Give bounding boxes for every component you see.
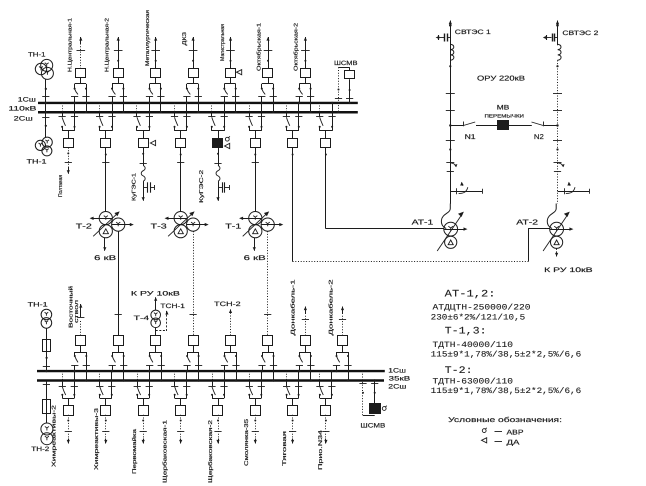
svg-text:ШСМВ: ШСМВ xyxy=(360,422,385,429)
symbol АВР at ШСМВ 35kV xyxy=(382,407,386,411)
svg-text:Донкабель-2: Донкабель-2 xyxy=(328,280,334,336)
110kV busbar section 1Сш (bus 1) xyxy=(38,102,358,104)
svg-text:СВТЭС 1: СВТЭС 1 xyxy=(455,29,492,36)
svg-text:Полтавая: Полтавая xyxy=(58,175,64,197)
110kV transformer bay Т-3 xyxy=(174,103,176,112)
svg-text:АВР: АВР xyxy=(507,430,524,437)
breaker КуГЭС-1 xyxy=(139,139,149,148)
35kV bus-tie breaker ШСМВ (closed) xyxy=(362,371,364,415)
6 кВ arrow of Т-2 xyxy=(104,238,106,251)
legend symbol АВР xyxy=(482,429,486,433)
ТСН-1 dashed tap wire xyxy=(156,330,167,332)
svg-text:N1: N1 xyxy=(465,134,476,141)
autotransformer АТ-1 xyxy=(441,204,450,229)
110kV transformer bay Т-2 xyxy=(99,103,101,112)
transformer Т-2 (three-winding) xyxy=(99,212,112,225)
35kV feeder bay Прио.N34 xyxy=(319,371,321,380)
voltage transformer ТН-1 on 110kV bus 2 xyxy=(45,112,47,137)
35kV voltage transformer ТН-2 xyxy=(46,381,48,400)
svg-text:Н.Центральная-1: Н.Центральная-1 xyxy=(67,18,73,72)
svg-text:230±6*2%/121/10,5: 230±6*2%/121/10,5 xyxy=(431,313,526,322)
35kV winding wire of Т-2 xyxy=(118,231,120,335)
svg-text:ТДТН-40000/110: ТДТН-40000/110 xyxy=(433,341,514,350)
110kV bay to АТ-1 (wire) xyxy=(319,103,321,112)
svg-text:АТДЦТН-250000/220: АТДЦТН-250000/220 xyxy=(433,303,531,312)
110kV busbar 2Сш (bus 2) xyxy=(38,111,358,113)
reactor and coupling capacitor КуГЭС-1 xyxy=(143,148,145,166)
svg-text:Т-1,3:: Т-1,3: xyxy=(445,327,487,338)
svg-text:Металлургическая: Металлургическая xyxy=(145,10,151,66)
35kV feeder bay Смолянка-35 xyxy=(249,371,251,380)
reactor coil СВТЭС 2 xyxy=(558,44,562,60)
symbol ДА at КуГЭС-1 xyxy=(150,140,155,145)
svg-text:ТН-1: ТН-1 xyxy=(28,51,46,58)
svg-text:К РУ 10кВ: К РУ 10кВ xyxy=(131,291,180,298)
line trap / coupling capacitor СВТЭС 2 xyxy=(543,36,547,39)
svg-text:ТН-2: ТН-2 xyxy=(31,446,50,453)
35kV transformer incomer bay (breaker) xyxy=(263,336,273,346)
svg-text:ТН-1: ТН-1 xyxy=(27,159,48,166)
autotransformer АТ-2 xyxy=(547,204,556,229)
svg-text:Т-2: Т-2 xyxy=(76,221,92,230)
35kV feeder bay Щербаковская-2 xyxy=(212,371,214,380)
svg-text:ТДТН-63000/110: ТДТН-63000/110 xyxy=(433,377,514,386)
110kV feeder bay Магистральная xyxy=(230,37,232,44)
svg-text:Прио.N34: Прио.N34 xyxy=(318,430,324,470)
35kV winding wire of Т-3 xyxy=(193,231,195,335)
svg-text:АТ-2: АТ-2 xyxy=(516,217,538,226)
breaker МВ перемычки (closed) xyxy=(498,121,509,130)
35kV bay Восточный ствол xyxy=(76,336,86,346)
legend symbol ДА xyxy=(482,438,487,443)
svg-text:1Сш: 1Сш xyxy=(18,96,36,103)
svg-text:Химреактивы-2: Химреактивы-2 xyxy=(51,405,57,467)
35kV busbar 1Сш (bus 1) xyxy=(37,370,385,372)
wire link to АТ-1 xyxy=(326,228,444,230)
reactor coil СВТЭС 1 xyxy=(450,44,454,60)
svg-text:Октябрьская-2: Октябрьская-2 xyxy=(293,23,299,71)
svg-text:Т-1: Т-1 xyxy=(225,221,241,230)
svg-text:ПЕРЕМЫЧКИ: ПЕРЕМЫЧКИ xyxy=(485,114,525,120)
breaker КуГЭС-2 xyxy=(213,139,223,148)
svg-text:К РУ 10кВ: К РУ 10кВ xyxy=(544,267,593,274)
svg-text:115±9*1,78%/38,5±2*2,5%/6,6: 115±9*1,78%/38,5±2*2,5%/6,6 xyxy=(431,351,582,360)
35kV feeder bay Химреактивы-2 xyxy=(62,371,64,380)
35kV busbar 2Сш (bus 2) xyxy=(37,379,384,381)
svg-text:Магистральная: Магистральная xyxy=(220,24,226,61)
110kV bus-tie breaker ШСМВ xyxy=(339,67,350,69)
svg-text:Щербаковская-2: Щербаковская-2 xyxy=(208,420,214,483)
symbol ДА at КуГЭС-2 xyxy=(225,143,230,148)
svg-text:КуГЭС-1: КуГЭС-1 xyxy=(131,173,137,201)
transformer Т-1 (three-winding) xyxy=(249,212,262,225)
110kV feeder bay Полтавая xyxy=(62,103,64,112)
reactor and coupling capacitor КуГЭС-2 xyxy=(218,148,220,166)
35kV feeder bay Первомайка xyxy=(137,371,139,380)
svg-text:Смолянка-35: Смолянка-35 xyxy=(244,419,250,466)
svg-text:ТН-1: ТН-1 xyxy=(28,302,49,309)
disconnector N1 xyxy=(463,122,465,127)
110kV feeder bay Октябрьская-2 xyxy=(305,37,307,44)
110kV transformer bay Т-1 xyxy=(249,103,251,112)
35kV feeder bay Щербаковская-1 xyxy=(174,371,176,380)
35kV feeder bay Химреактивы-3 xyxy=(99,371,101,380)
wire dotted link to АТ-2 xyxy=(293,261,528,263)
fuse ТН-2 35kV xyxy=(43,400,51,414)
line trap / coupling capacitor СВТЭС 1 xyxy=(436,36,440,39)
symbol ДА at Магистральная breaker xyxy=(237,70,242,75)
svg-text:ТСН-1: ТСН-1 xyxy=(160,303,185,310)
svg-text:Химреактивы-3: Химреактивы-3 xyxy=(94,408,100,470)
35kV bay ТСН transformer Т-4 xyxy=(151,336,161,346)
110kV feeder bay Металлургическая xyxy=(155,37,157,44)
svg-text:ОРУ 220кВ: ОРУ 220кВ xyxy=(477,76,525,83)
220kV line СВТЭС 2 (wire) xyxy=(557,21,559,25)
svg-text:Первомайка: Первомайка xyxy=(132,429,138,474)
voltage transformer ТН-1 110kV xyxy=(41,59,53,71)
110kV line bay КуГЭС-2 (closed breaker) xyxy=(211,103,213,112)
svg-text:2Сш: 2Сш xyxy=(388,383,406,390)
110kV bay to АТ-2 (wire) xyxy=(286,103,288,112)
110kV feeder bay Н.Центральная-1 xyxy=(80,37,82,44)
svg-text:110кВ: 110кВ xyxy=(8,106,36,113)
svg-text:Щербаковская-1: Щербаковская-1 xyxy=(163,420,169,483)
svg-text:Донкабель-1: Донкабель-1 xyxy=(291,280,297,336)
label - АВР xyxy=(495,431,503,433)
svg-text:КуГЭС-2: КуГЭС-2 xyxy=(199,170,205,203)
110kV feeder bay Октябрьская-1 xyxy=(268,37,270,44)
110kV feeder bay ДКЗ xyxy=(193,37,195,44)
svg-text:6 кВ: 6 кВ xyxy=(94,255,117,262)
220kV line СВТЭС 1 (wire) xyxy=(450,21,452,25)
svg-text:1Сш: 1Сш xyxy=(388,367,406,374)
symbol АВР at КуГЭС-2 xyxy=(225,137,229,141)
svg-text:ДКЗ: ДКЗ xyxy=(182,32,188,46)
35kV feeder bay Донкабель-1 xyxy=(301,336,311,346)
110kV feeder bay Н.Центральная-2 xyxy=(118,37,120,44)
svg-text:АТ-1: АТ-1 xyxy=(412,217,434,226)
35kV feeder bay Тяговая xyxy=(286,371,288,380)
label - ДА xyxy=(495,441,503,443)
svg-text:Условные обозначения:: Условные обозначения: xyxy=(448,416,562,424)
35kV transformer incomer bay (breaker) xyxy=(189,336,199,346)
earthing switch and arrester on СВТЭС 2 line xyxy=(554,162,562,164)
svg-text:МВ: МВ xyxy=(497,104,510,111)
earthing switch and arrester on СВТЭС 1 line xyxy=(446,162,454,164)
svg-text:35кВ: 35кВ xyxy=(389,376,411,383)
35kV voltage transformer ТН-1 xyxy=(41,309,52,320)
35kV winding wire of Т-1 xyxy=(267,231,269,335)
АТ-2 10kV tail arrow xyxy=(556,248,558,253)
svg-text:Т-3: Т-3 xyxy=(151,221,167,230)
svg-text:Октябрьская-1: Октябрьская-1 xyxy=(256,23,262,71)
35kV feeder bay Донкабель-2 xyxy=(338,336,348,346)
svg-text:6 кВ: 6 кВ xyxy=(244,255,267,262)
6 кВ arrow of Т-1 xyxy=(254,238,256,251)
transformer Т-3 (three-winding) xyxy=(174,212,187,225)
svg-text:Т-2:: Т-2: xyxy=(445,366,473,377)
svg-text:Н.Центральная-2: Н.Центральная-2 xyxy=(105,18,111,72)
tie line МВ перемычки (wire) xyxy=(450,125,463,127)
35kV transformer incomer bay (breaker) xyxy=(114,336,124,346)
svg-text:АТ-1,2:: АТ-1,2: xyxy=(445,289,496,300)
svg-text:Т-4: Т-4 xyxy=(134,315,150,322)
110kV line bay КуГЭС-1 xyxy=(136,103,138,112)
svg-text:ДА: ДА xyxy=(507,439,520,446)
svg-text:ТСН-2: ТСН-2 xyxy=(214,301,241,308)
svg-text:СВТЭС 2: СВТЭС 2 xyxy=(562,30,599,37)
svg-text:ствол: ствол xyxy=(74,300,80,323)
svg-text:N2: N2 xyxy=(534,134,544,141)
svg-text:ШСМВ: ШСМВ xyxy=(334,60,358,67)
disconnector N2 xyxy=(543,122,545,127)
fuse ТН-1 35kV xyxy=(43,340,51,352)
svg-text:Тяговая: Тяговая xyxy=(282,431,288,466)
35kV bay ТСН-2 (feeder) xyxy=(226,336,236,346)
svg-text:115±9*1,78%/38,5±2*2,5%/6,6: 115±9*1,78%/38,5±2*2,5%/6,6 xyxy=(431,387,582,396)
svg-text:2Сш: 2Сш xyxy=(14,115,33,122)
